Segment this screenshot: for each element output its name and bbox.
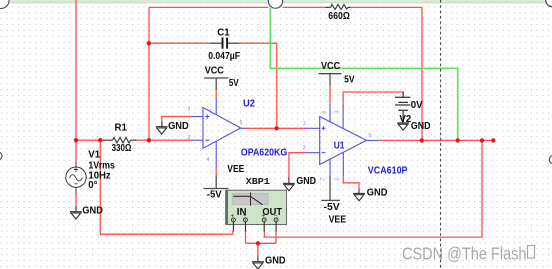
wire R1 to U2 -in — [136, 139, 191, 141]
wire U2 +in to GND — [162, 117, 192, 122]
junction U1 output / 660 loop — [420, 138, 424, 142]
wire U1 vcc stub — [329, 85, 331, 103]
svg-text:0°: 0° — [88, 180, 97, 191]
svg-text:6: 6 — [240, 120, 243, 126]
junction output wire end — [491, 138, 495, 142]
source V1 — [66, 162, 86, 194]
svg-text:VEE: VEE — [329, 215, 347, 226]
wire U2 vee stub red part — [215, 166, 217, 175]
ground U2 +in — [156, 121, 168, 134]
svg-text:4: 4 — [207, 157, 210, 163]
junction U1 output / green net — [456, 138, 460, 142]
wire hop circle — [268, 0, 282, 8]
ground U1 bottom pin — [353, 189, 365, 200]
ground V1 — [70, 207, 82, 220]
svg-text:2: 2 — [335, 178, 341, 181]
svg-text:VCA610P: VCA610P — [368, 165, 408, 176]
op-amp U1 — [307, 104, 379, 177]
svg-text:3: 3 — [335, 111, 341, 114]
ground U1 -in — [283, 177, 295, 190]
vcc bar U2 — [204, 78, 228, 90]
wire U1 -in to GND — [289, 153, 307, 178]
wire bode gnd stub — [257, 243, 259, 256]
svg-text:R1: R1 — [115, 123, 128, 134]
ground V2 — [397, 123, 409, 130]
wire U2 output — [244, 127, 307, 129]
svg-text:U1: U1 — [334, 141, 345, 152]
wire U2 vcc stub red part — [215, 90, 217, 98]
junction U2 inverting input node — [147, 138, 151, 142]
svg-text:GND: GND — [296, 176, 316, 187]
svg-text:1: 1 — [303, 121, 306, 127]
wire vertical x149 (node R1/C1/top) — [148, 7, 150, 140]
wire U1 gain pin to V2 — [343, 92, 403, 104]
svg-text:GND: GND — [411, 121, 431, 132]
capacitor C1 — [210, 42, 239, 44]
svg-text:3: 3 — [303, 145, 306, 151]
vee bar U2 — [204, 175, 229, 188]
svg-text:3: 3 — [188, 107, 191, 113]
svg-text:V2: V2 — [399, 114, 411, 125]
svg-text:6: 6 — [322, 111, 328, 114]
svg-text:VCC: VCC — [205, 66, 224, 77]
pin numbers — [188, 107, 372, 181]
svg-text:-5V: -5V — [207, 190, 222, 201]
vee bar U1 — [321, 176, 340, 200]
wire IN-/OUT- join — [246, 242, 277, 244]
wire top feedback horizontal — [149, 6, 268, 8]
wire C1 right to U2 output — [239, 43, 276, 128]
resistor 660 top — [325, 5, 351, 10]
svg-text:V1: V1 — [88, 150, 100, 161]
svg-text:7: 7 — [209, 110, 212, 116]
svg-text:−: − — [274, 214, 278, 220]
wire main input left — [76, 139, 102, 141]
svg-text:5: 5 — [369, 133, 372, 139]
resistor R1 — [102, 138, 137, 143]
svg-text:U2: U2 — [243, 99, 255, 110]
junction V1 top node — [74, 138, 78, 142]
junction U2 output node — [274, 126, 278, 130]
svg-text:CSDN @The Flash: CSDN @The Flash — [402, 243, 527, 263]
svg-text:7: 7 — [321, 178, 327, 181]
svg-text:330Ω: 330Ω — [112, 143, 132, 154]
wire IN+ tap — [100, 140, 233, 234]
worksheet top border — [0, 0, 552, 3]
svg-text:GND: GND — [265, 255, 286, 266]
wire left outer vertical — [75, 0, 77, 163]
wire OUT- drop — [275, 231, 277, 244]
corner arc top-left — [0, 0, 9, 9]
svg-text:GND: GND — [168, 121, 189, 132]
svg-text:2: 2 — [188, 135, 191, 141]
wire C1 left — [149, 42, 210, 44]
corner arc top-right — [546, 0, 552, 7]
svg-text:GND: GND — [367, 188, 388, 199]
wire U1 output — [379, 139, 494, 141]
divider dashed line — [440, 0, 442, 269]
svg-text:0.047µF: 0.047µF — [208, 51, 240, 62]
junction bode IN+ tap — [98, 138, 102, 142]
bode plotter XBP1 — [226, 190, 287, 231]
svg-text:OPA620KG: OPA620KG — [241, 148, 287, 159]
wire feedback OUT+ — [264, 140, 482, 237]
op-amp U2 — [149, 97, 245, 166]
edge arc right — [549, 155, 552, 163]
svg-text:C1: C1 — [217, 28, 230, 39]
svg-text:5V: 5V — [229, 78, 239, 89]
svg-text:+: + — [262, 214, 266, 220]
vcc bar U1 — [319, 74, 342, 86]
svg-text:660Ω: 660Ω — [328, 11, 350, 22]
svg-text:+: + — [231, 214, 235, 220]
svg-text:0V: 0V — [411, 100, 423, 111]
wire IN- drop — [245, 231, 247, 244]
svg-text:XBP1: XBP1 — [246, 176, 270, 187]
wire green V2 net — [270, 8, 457, 141]
junction U1 output / bode OUT+ loop — [480, 138, 484, 142]
svg-text:−: − — [243, 214, 247, 220]
battery V2 — [395, 91, 410, 123]
edge arc left — [0, 152, 2, 160]
svg-text:VEE: VEE — [227, 164, 244, 175]
ground bode plotter — [252, 256, 264, 269]
svg-text:GND: GND — [82, 206, 103, 217]
wire U1 bottom-right pin to GND — [343, 176, 359, 190]
wire top loop right vertical — [421, 7, 423, 140]
svg-text:-5V: -5V — [324, 202, 341, 213]
svg-text:5V: 5V — [344, 75, 355, 86]
svg-text:OUT: OUT — [262, 207, 282, 218]
wire V1 bottom — [75, 193, 77, 207]
svg-text:VCC: VCC — [321, 61, 340, 72]
junction C1 feedback tap — [147, 41, 151, 45]
bode terminal polarity — [231, 214, 278, 220]
junction bode minus terminals to ground — [256, 241, 260, 245]
